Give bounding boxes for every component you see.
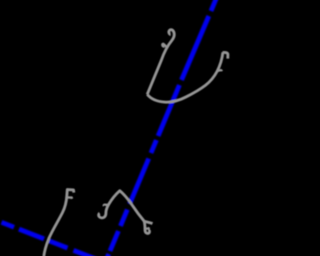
wall A tooth on left arm (162, 44, 166, 48)
wall C tooth on down branch (145, 227, 149, 228)
wall B: F-shape with diagonal, bottom-left (44, 190, 74, 256)
wall A tooth on right arm (217, 70, 222, 71)
wall B tooth (67, 197, 72, 198)
wall A: large J-curve top-right (147, 30, 228, 102)
wall A end hook top-right (223, 52, 228, 58)
wall C: peak shape bottom-middle (99, 191, 153, 234)
wire: blue dashed main diagonal (top-right to bottom-left) (107, 0, 216, 256)
wall C tooth on left arm (104, 205, 109, 206)
wire: blue dashed line bottom-left (2, 222, 98, 256)
wall C down branch with end curl (144, 221, 149, 233)
